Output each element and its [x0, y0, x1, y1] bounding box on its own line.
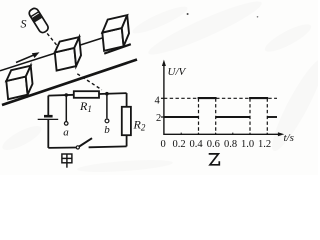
- speck: [257, 16, 259, 18]
- dashed level line U=4: [164, 97, 277, 99]
- node dot b on top wire: [105, 92, 109, 96]
- label yi (乙) drawn strokes: [209, 154, 220, 165]
- svg-text:1.0: 1.0: [241, 139, 254, 150]
- svg-text:1.2: 1.2: [258, 139, 271, 150]
- svg-text:S: S: [21, 17, 27, 31]
- voltage waveform solid segment 1.0-1.2 at U=4: [249, 97, 268, 99]
- circuit bottom wire left segment: [48, 147, 76, 149]
- svg-text:t/s: t/s: [284, 132, 294, 144]
- x-axis arrowhead: [278, 132, 284, 136]
- box 3 on belt (top-right cube): [102, 15, 129, 51]
- terminal b stem wire: [106, 94, 108, 119]
- x-axis tick marks: [180, 133, 182, 135]
- svg-text:0.4: 0.4: [190, 139, 204, 150]
- graph y-axis: [163, 63, 165, 135]
- dashed light beam from box down to R1: [77, 74, 102, 90]
- speck: [187, 13, 189, 15]
- voltage waveform solid segment 0.6-1.0 at U=2: [216, 116, 250, 118]
- svg-text:0.6: 0.6: [207, 139, 220, 150]
- voltage waveform solid tail after 1.2 at U=2: [267, 116, 277, 118]
- voltage waveform solid segment 0.4-0.6 at U=4: [198, 97, 217, 99]
- graph x-axis: [164, 133, 281, 135]
- svg-text:0.8: 0.8: [224, 139, 237, 150]
- circuit top wire: [48, 94, 74, 97]
- voltage waveform solid segment 0-0.4 at U=2: [164, 116, 199, 118]
- terminal b circle: [105, 119, 109, 123]
- battery: short thick plate: [44, 115, 53, 118]
- battery: long thin plate: [38, 118, 59, 120]
- light source S (flashlight): [28, 7, 50, 34]
- switch pivot: [76, 146, 79, 149]
- conveyor belt lower edge line: [2, 60, 137, 106]
- svg-text:b: b: [104, 124, 110, 136]
- box 2 on belt (middle cube): [55, 37, 81, 71]
- label jia (甲) drawn strokes: [62, 154, 72, 168]
- y tick 4: [161, 97, 164, 99]
- node dot a on top wire: [65, 93, 69, 97]
- dashed vertical at t=0.6: [215, 98, 217, 134]
- terminal a stem wire: [65, 95, 67, 122]
- switch blade: [79, 138, 92, 146]
- circuit bottom wire right segment: [89, 145, 127, 148]
- svg-text:a: a: [63, 126, 69, 138]
- box 1 on belt (bottom-left cube): [6, 66, 32, 100]
- svg-text:0.2: 0.2: [173, 139, 186, 150]
- svg-text:4: 4: [155, 96, 161, 107]
- circuit left wire: [47, 96, 49, 117]
- dashed vertical at t=1.2: [266, 98, 268, 134]
- y tick 2: [161, 116, 164, 118]
- resistor R2: [122, 107, 131, 135]
- svg-text:U/V: U/V: [168, 66, 187, 78]
- terminal a circle: [64, 122, 68, 126]
- direction arrow on belt: [16, 52, 40, 62]
- svg-text:2: 2: [156, 113, 161, 124]
- resistor R1: [74, 91, 99, 98]
- dashed vertical at t=1.0: [249, 98, 251, 134]
- circuit right wire: [126, 93, 128, 107]
- short belt line under third box: [104, 44, 131, 53]
- dashed vertical at t=0.4: [198, 98, 200, 134]
- conveyor belt upper edge line: [0, 38, 103, 71]
- dashed light beam from S to box: [47, 33, 57, 45]
- svg-text:0: 0: [161, 139, 166, 150]
- faint scan streaks: [0, 0, 320, 174]
- y-axis arrowhead: [162, 60, 166, 66]
